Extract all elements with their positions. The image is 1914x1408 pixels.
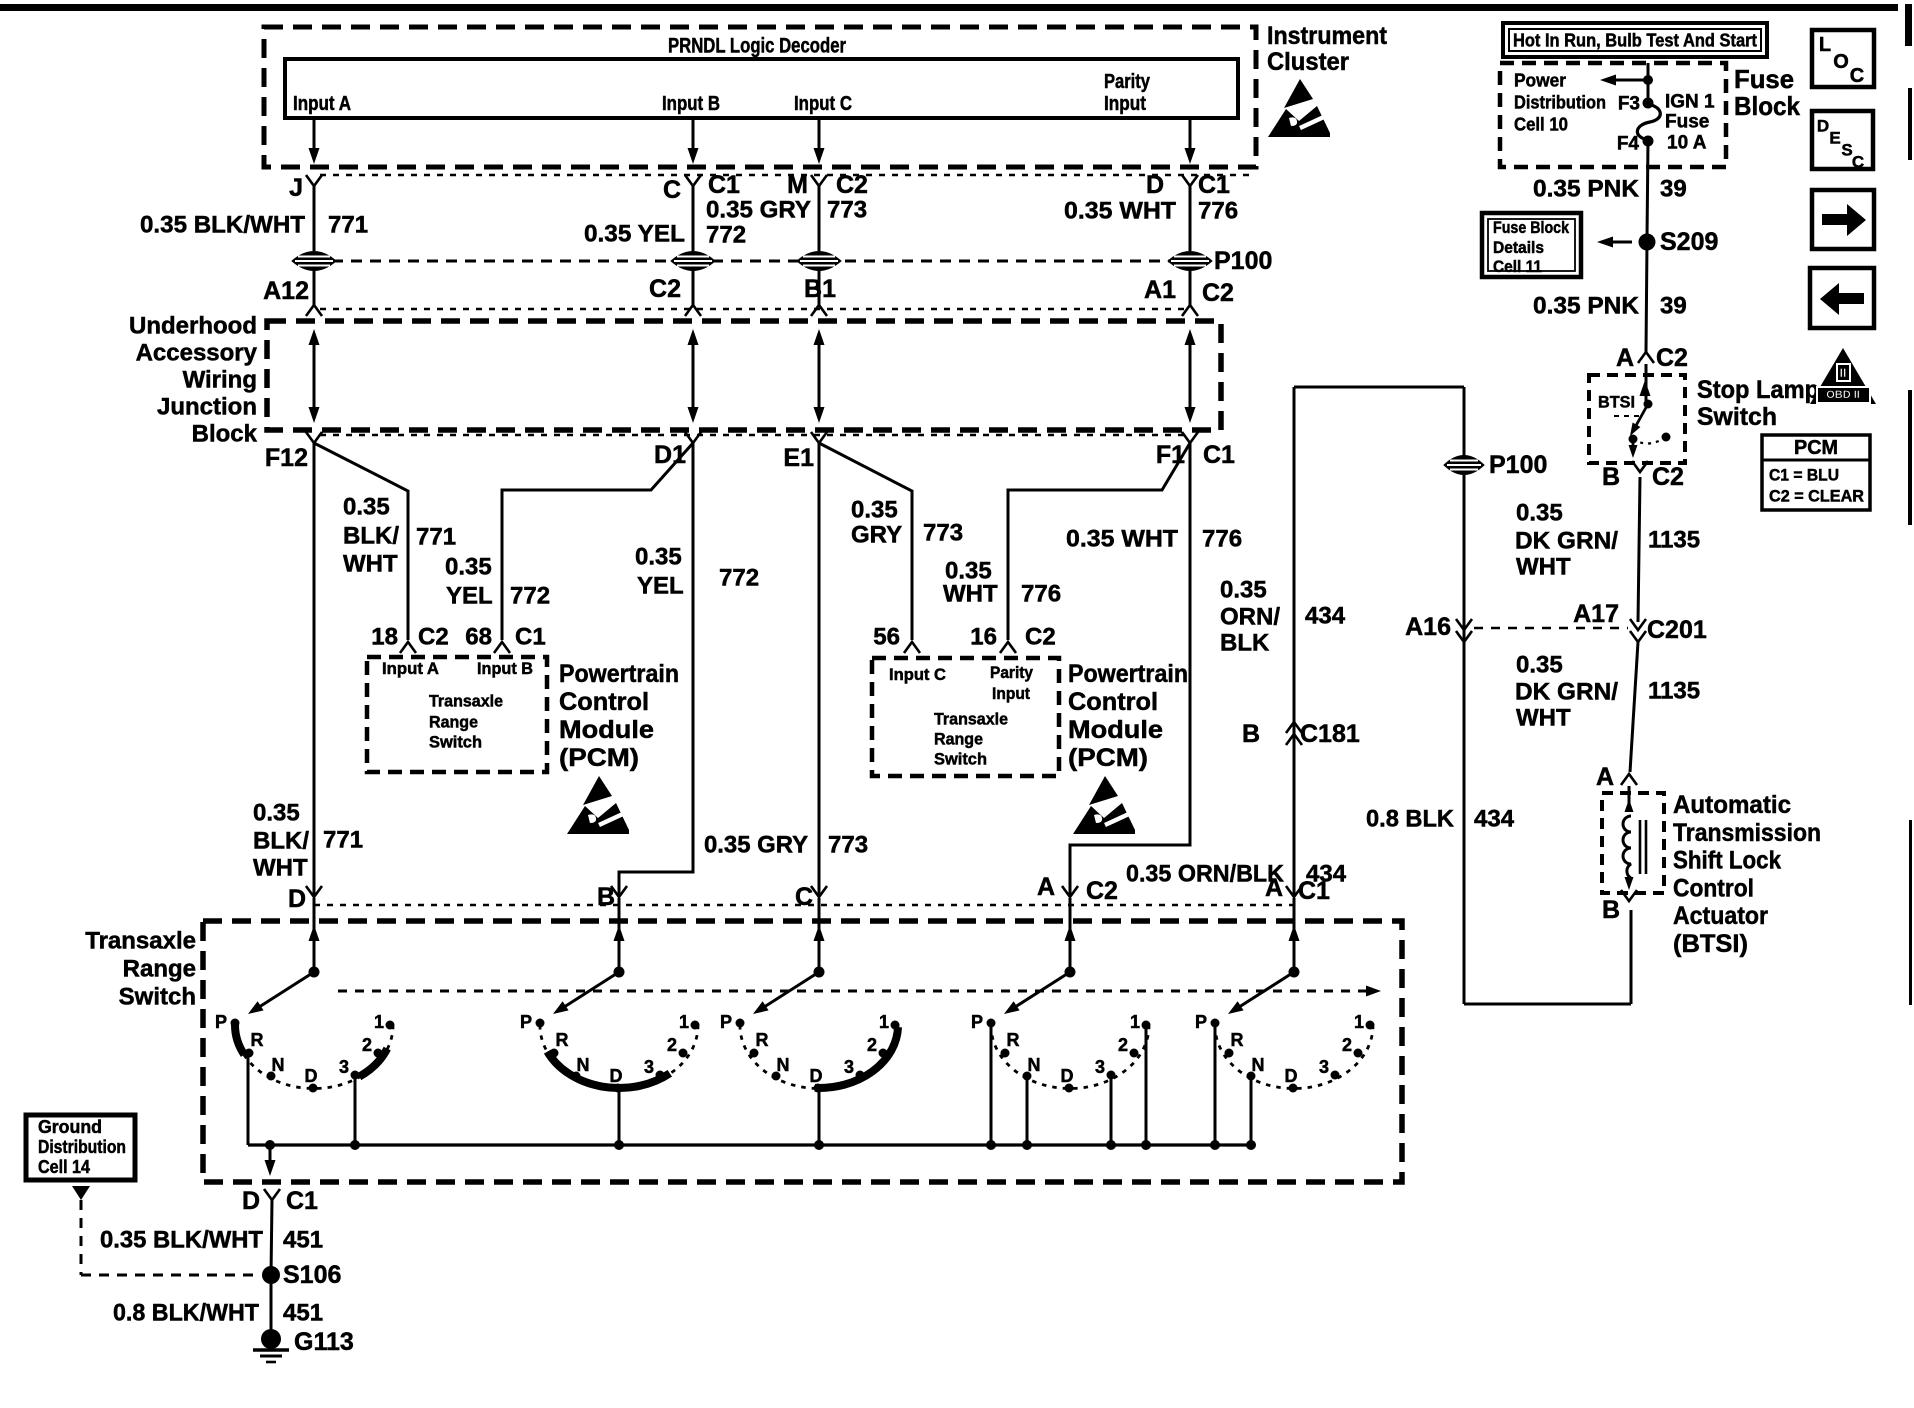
svg-text:Cluster: Cluster: [1267, 48, 1349, 76]
svg-text:Details: Details: [1493, 239, 1544, 257]
Stop Lamp Switch dashed box: [1589, 375, 1685, 463]
dashed link to S106: [80, 1200, 83, 1275]
connector fork C: [685, 175, 701, 186]
svg-text:F12: F12: [265, 444, 308, 472]
ground exit wire: [269, 1145, 272, 1168]
svg-text:0.35: 0.35: [1220, 577, 1267, 604]
svg-text:Transaxle: Transaxle: [934, 710, 1008, 729]
svg-text:A: A: [1616, 344, 1634, 372]
svg-text:0.35 GRY: 0.35 GRY: [706, 197, 811, 224]
wire Input Parity to connector: [1189, 118, 1192, 160]
Automatic Transmission Shift Lock Control Actuator dashed box: [1602, 793, 1664, 893]
svg-text:772: 772: [706, 222, 746, 249]
svg-text:Control: Control: [1068, 688, 1158, 716]
wire into stop lamp switch: [1645, 364, 1648, 402]
instrument cluster dashed box: [264, 27, 1256, 167]
svg-text:18: 18: [371, 624, 398, 651]
wire 434 top jog: [1294, 386, 1464, 389]
svg-text:E: E: [1829, 129, 1840, 148]
svg-text:Wiring: Wiring: [183, 367, 257, 394]
svg-text:Parity: Parity: [990, 664, 1034, 682]
svg-text:0.35 YEL: 0.35 YEL: [584, 221, 685, 248]
ground G113: [261, 1329, 281, 1349]
svg-text:P100: P100: [1214, 247, 1272, 275]
entry fork: [1062, 886, 1078, 897]
svg-text:Parity: Parity: [1104, 71, 1151, 93]
pin 18 C2: [400, 642, 416, 653]
fuse F3/F4 IGN 1 10A: [1643, 98, 1654, 109]
entry fork: [1286, 886, 1302, 897]
svg-text:D: D: [610, 1066, 623, 1086]
svg-text:C2: C2: [649, 275, 681, 303]
LOC icon box: [1812, 30, 1874, 87]
svg-text:A: A: [1037, 873, 1055, 901]
svg-text:F1: F1: [1156, 441, 1185, 469]
svg-text:Control: Control: [559, 688, 649, 716]
wire 0.8 BLK 434 to BTSI B: [1630, 910, 1633, 1004]
wire branch F12 to PCM pin 18: [314, 443, 408, 640]
junction block pass-through wire: [818, 337, 821, 415]
svg-text:F4: F4: [1617, 134, 1640, 155]
wire to junction block: [692, 271, 695, 305]
svg-text:0.35 GRY: 0.35 GRY: [704, 832, 808, 859]
svg-text:D: D: [242, 1187, 260, 1215]
DESC icon box: [1812, 111, 1873, 169]
svg-text:WHT: WHT: [343, 551, 398, 578]
svg-text:773: 773: [828, 832, 868, 859]
svg-text:A17: A17: [1573, 600, 1619, 628]
svg-text:Cell 14: Cell 14: [38, 1157, 90, 1177]
svg-text:R: R: [1231, 1030, 1244, 1050]
svg-text:C2: C2: [1086, 877, 1118, 905]
svg-text:D: D: [288, 885, 306, 913]
svg-text:S106: S106: [283, 1261, 341, 1289]
connector fork below junction block: [306, 432, 322, 443]
ground bus wire inside range switch: [248, 1143, 1251, 1146]
next page arrow icon: [1812, 190, 1874, 249]
svg-text:P100: P100: [1489, 451, 1547, 479]
svg-text:ORN/: ORN/: [1220, 604, 1280, 631]
splice S106: [262, 1266, 280, 1284]
svg-text:N: N: [777, 1055, 790, 1075]
svg-text:Range: Range: [429, 713, 478, 732]
svg-text:O: O: [1833, 51, 1849, 73]
svg-text:Input A: Input A: [293, 93, 351, 115]
svg-text:C2: C2: [836, 171, 868, 199]
arrow to fuse block details: [1601, 241, 1632, 244]
svg-text:E1: E1: [783, 444, 814, 472]
svg-text:Range: Range: [123, 956, 196, 983]
svg-text:0.35 WHT: 0.35 WHT: [1066, 526, 1178, 553]
grommet P100 pass-through: [671, 252, 715, 271]
svg-text:1: 1: [879, 1012, 889, 1032]
range switch wafer 2 input B: [520, 898, 700, 1093]
svg-text:0.35: 0.35: [1516, 500, 1563, 527]
svg-text:Powertrain: Powertrain: [1068, 660, 1188, 688]
node line C1/C2 connector row: [320, 174, 1256, 176]
svg-text:YEL: YEL: [637, 573, 684, 600]
svg-text:Power: Power: [1514, 70, 1566, 91]
svg-text:1: 1: [374, 1012, 384, 1032]
svg-text:771: 771: [323, 827, 363, 854]
svg-text:DK GRN/: DK GRN/: [1515, 528, 1618, 555]
svg-text:N: N: [1028, 1055, 1041, 1075]
svg-text:P: P: [971, 1012, 983, 1032]
svg-text:P: P: [720, 1012, 732, 1032]
wire 0.35 ORN/BLK 434: [1293, 387, 1296, 897]
svg-text:2: 2: [1342, 1035, 1352, 1055]
svg-text:0.35: 0.35: [1516, 652, 1563, 679]
grommet P100 pass-through: [1168, 252, 1212, 271]
svg-text:YEL: YEL: [446, 583, 493, 610]
svg-text:D: D: [1061, 1066, 1074, 1086]
svg-text:C: C: [1852, 153, 1864, 172]
svg-text:0.35 WHT: 0.35 WHT: [1064, 198, 1176, 225]
svg-text:BLK/: BLK/: [253, 828, 309, 855]
wire Input C to connector: [818, 118, 821, 160]
splice S209: [1639, 234, 1656, 251]
wire 0.8 BLK 434 bottom jog: [1464, 1003, 1631, 1006]
Fuse Block dashed box: [1500, 63, 1726, 167]
svg-text:C: C: [1850, 65, 1864, 87]
connector B C2 stop lamp: [1632, 461, 1648, 472]
svg-text:776: 776: [1202, 526, 1242, 553]
svg-text:Fuse: Fuse: [1734, 64, 1794, 94]
svg-text:2: 2: [1118, 1035, 1128, 1055]
svg-text:0.35: 0.35: [445, 554, 492, 581]
svg-text:N: N: [1252, 1055, 1265, 1075]
svg-text:N: N: [272, 1055, 285, 1075]
svg-text:1135: 1135: [1648, 678, 1700, 705]
svg-text:Ground: Ground: [38, 1117, 102, 1137]
svg-text:C1: C1: [1203, 441, 1235, 469]
svg-text:Automatic: Automatic: [1673, 791, 1791, 819]
svg-text:Hot In Run, Bulb Test And Star: Hot In Run, Bulb Test And Start: [1513, 30, 1757, 51]
connector C201 A16 A17: [1456, 619, 1472, 630]
pin 56: [904, 642, 920, 653]
svg-text:Cell 10: Cell 10: [1514, 114, 1568, 135]
svg-text:Switch: Switch: [934, 750, 987, 769]
wire 0.35 BLK/WHT 451: [271, 1200, 272, 1275]
svg-text:0.35: 0.35: [635, 544, 682, 571]
svg-text:Input C: Input C: [889, 666, 946, 684]
svg-text:D: D: [810, 1066, 823, 1086]
connector A C2 stop lamp: [1638, 352, 1654, 363]
range switch contact drop wires and bus: [247, 1053, 250, 1145]
connector D C1 ground exit: [264, 1189, 280, 1200]
svg-text:Input B: Input B: [477, 660, 533, 678]
svg-text:0.35: 0.35: [343, 494, 390, 521]
svg-text:F3: F3: [1618, 94, 1640, 115]
PCM connector legend box: [1762, 435, 1870, 510]
svg-text:Fuse Block: Fuse Block: [1493, 219, 1570, 237]
wafer 3 thick contact D-1: [815, 1027, 898, 1088]
svg-text:Actuator: Actuator: [1673, 902, 1768, 930]
svg-text:Distribution: Distribution: [1514, 92, 1606, 113]
range switch wafer 4 input A: [971, 898, 1151, 1093]
wire 0.35 DK GRN/WHT 1135 lower: [1630, 642, 1638, 772]
Underhood Accessory Wiring Junction Block dashed box: [267, 321, 1221, 430]
svg-text:451: 451: [283, 1227, 323, 1254]
svg-text:L: L: [1819, 34, 1831, 56]
svg-text:BLK/: BLK/: [343, 523, 399, 550]
svg-text:1: 1: [1354, 1012, 1364, 1032]
ESD symbol PCM right: [1073, 776, 1135, 834]
ground distribution pointer: [72, 1186, 90, 1200]
wire to junction block: [818, 271, 821, 305]
svg-text:Input: Input: [1104, 93, 1146, 115]
svg-text:R: R: [1007, 1030, 1020, 1050]
connector fork below junction block: [685, 432, 701, 443]
svg-text:IGN 1: IGN 1: [1665, 92, 1715, 113]
svg-text:N: N: [577, 1055, 590, 1075]
svg-text:R: R: [556, 1030, 569, 1050]
svg-text:C1 = BLU: C1 = BLU: [1769, 466, 1839, 485]
node line below P100 row: [320, 308, 1190, 310]
Transaxle Range Switch box (PCM inputs A/B) U2: [367, 657, 547, 772]
svg-text:P: P: [1195, 1012, 1207, 1032]
svg-text:C2: C2: [1656, 344, 1688, 372]
svg-text:39: 39: [1660, 176, 1687, 203]
Ground Distribution Cell 14 box: [26, 1115, 135, 1180]
wire 0.35 BLK/WHT 771 (F12 to D): [313, 443, 316, 897]
svg-text:(PCM): (PCM): [559, 744, 639, 772]
svg-text:R: R: [251, 1030, 264, 1050]
svg-text:C: C: [663, 176, 681, 204]
svg-text:Block: Block: [192, 421, 258, 448]
svg-text:1: 1: [1130, 1012, 1140, 1032]
connector fork D: [1182, 175, 1198, 186]
svg-text:A16: A16: [1405, 613, 1451, 641]
svg-text:Distribution: Distribution: [38, 1137, 126, 1157]
wafer 1 thick contact 3-2: [359, 1049, 387, 1077]
svg-text:Underhood: Underhood: [129, 313, 257, 340]
stop lamp switch S1 contacts: [1640, 380, 1651, 396]
range switch wafer 3 input C: [720, 898, 900, 1093]
wire branch D1 to PCM pin 68 (0.35 YEL 772): [502, 443, 693, 640]
connector fork below junction block: [811, 432, 827, 443]
svg-text:B: B: [1242, 720, 1260, 748]
svg-text:D: D: [1146, 171, 1164, 199]
svg-text:C1: C1: [515, 624, 546, 651]
svg-text:C2: C2: [1025, 624, 1056, 651]
svg-text:2: 2: [867, 1035, 877, 1055]
junction block pass-through wire: [692, 337, 695, 415]
wiper common dashed line: [338, 990, 1370, 993]
svg-text:451: 451: [283, 1300, 323, 1327]
svg-text:C1: C1: [708, 171, 740, 199]
svg-text:771: 771: [328, 212, 368, 239]
svg-text:C1: C1: [1198, 171, 1230, 199]
svg-text:Fuse: Fuse: [1665, 112, 1709, 133]
wire Input A to connector: [313, 118, 316, 160]
svg-text:BTSI: BTSI: [1598, 393, 1635, 412]
svg-text:773: 773: [923, 520, 963, 547]
svg-text:D: D: [1817, 117, 1829, 136]
svg-text:776: 776: [1021, 581, 1061, 608]
svg-text:(PCM): (PCM): [1068, 744, 1148, 772]
entry fork: [811, 886, 827, 897]
svg-text:2: 2: [667, 1035, 677, 1055]
svg-text:Range: Range: [934, 730, 983, 749]
connector B actuator: [1621, 890, 1637, 901]
svg-text:P: P: [215, 1012, 227, 1032]
svg-text:P: P: [520, 1012, 532, 1032]
pin 16 C2: [1000, 642, 1016, 653]
range switch wafer 5 input A: [1195, 898, 1375, 1093]
wire 0.35 DK GRN/WHT 1135 upper: [1638, 477, 1640, 622]
wire branch E1 to PCM pin 56: [819, 443, 912, 640]
svg-text:WHT: WHT: [1516, 705, 1571, 732]
svg-text:G113: G113: [294, 1328, 354, 1356]
svg-text:Transmission: Transmission: [1673, 819, 1821, 847]
svg-text:3: 3: [1095, 1057, 1105, 1077]
svg-text:772: 772: [510, 583, 550, 610]
svg-text:GRY: GRY: [851, 522, 902, 549]
svg-text:B: B: [1602, 463, 1620, 491]
svg-text:C1: C1: [286, 1187, 318, 1215]
Transaxle Range Switch dashed box S2: [203, 921, 1402, 1182]
svg-text:3: 3: [339, 1057, 349, 1077]
svg-text:0.8 BLK: 0.8 BLK: [1366, 806, 1455, 833]
svg-text:0.35 BLK/WHT: 0.35 BLK/WHT: [100, 1227, 263, 1254]
ESD symbol instrument cluster: [1268, 79, 1330, 137]
svg-text:3: 3: [844, 1057, 854, 1077]
svg-text:D: D: [1285, 1066, 1298, 1086]
svg-text:0.35 BLK/WHT: 0.35 BLK/WHT: [140, 212, 305, 239]
grommet P100 right: [1444, 456, 1484, 475]
pin 68 C1: [494, 642, 510, 653]
connector fork M: [811, 175, 827, 186]
wire 0.8 BLK 434 vertical: [1463, 387, 1466, 1004]
svg-text:3: 3: [644, 1057, 654, 1077]
svg-text:B: B: [1602, 896, 1620, 924]
svg-text:56: 56: [873, 624, 900, 651]
wire to junction block: [313, 271, 316, 305]
svg-text:(BTSI): (BTSI): [1673, 930, 1748, 958]
svg-text:C1: C1: [1298, 877, 1330, 905]
svg-text:C181: C181: [1300, 720, 1360, 748]
svg-text:WHT: WHT: [1516, 554, 1571, 581]
svg-text:BLK: BLK: [1220, 630, 1270, 657]
svg-text:Input A: Input A: [382, 660, 439, 678]
entry fork: [611, 886, 627, 897]
svg-text:0.35: 0.35: [851, 497, 898, 524]
svg-text:C2 = CLEAR: C2 = CLEAR: [1769, 487, 1864, 506]
svg-text:C201: C201: [1647, 616, 1707, 644]
wire from hot feed: [1647, 63, 1650, 99]
svg-text:D: D: [305, 1066, 318, 1086]
svg-text:PCM: PCM: [1794, 437, 1838, 459]
range switch wafer 1 input D: [215, 898, 395, 1093]
connector A actuator: [1621, 774, 1637, 785]
svg-text:PRNDL Logic Decoder: PRNDL Logic Decoder: [668, 35, 846, 58]
svg-text:2: 2: [362, 1035, 372, 1055]
node line above range switch: [314, 904, 1294, 906]
svg-text:Powertrain: Powertrain: [559, 660, 679, 688]
svg-text:C2: C2: [1652, 463, 1684, 491]
svg-text:0.35 PNK: 0.35 PNK: [1533, 176, 1640, 203]
entry fork: [306, 886, 322, 897]
connector fork below junction block: [1182, 432, 1198, 443]
svg-text:Block: Block: [1734, 91, 1800, 121]
svg-text:0.35 ORN/BLK: 0.35 ORN/BLK: [1126, 861, 1285, 888]
svg-text:Input: Input: [992, 685, 1030, 703]
svg-text:Input B: Input B: [662, 93, 720, 115]
svg-text:Control: Control: [1673, 874, 1754, 902]
wafer 2 thick contact R-3: [547, 1052, 669, 1088]
svg-text:WHT: WHT: [253, 855, 308, 882]
ESD symbol PCM left: [567, 776, 629, 834]
svg-text:Accessory: Accessory: [136, 340, 258, 367]
connector B C181: [1286, 722, 1302, 733]
wire branch F1 to PCM pin 16 (0.35 WHT 776): [1008, 443, 1190, 640]
wire 0.35 WHT 776 (F1 to A): [1070, 443, 1190, 897]
svg-text:S209: S209: [1660, 228, 1718, 256]
svg-text:DK GRN/: DK GRN/: [1515, 679, 1618, 706]
Hot In Run Bulb Test And Start box: [1503, 23, 1767, 57]
previous page arrow icon: [1810, 268, 1874, 328]
svg-text:A: A: [1596, 763, 1614, 791]
svg-text:R: R: [756, 1030, 769, 1050]
svg-text:Switch: Switch: [1697, 403, 1777, 431]
svg-text:3: 3: [1319, 1057, 1329, 1077]
wire Input B to connector: [692, 118, 695, 160]
svg-text:WHT: WHT: [943, 581, 998, 608]
wire 0.8 BLK/WHT 451: [270, 1275, 273, 1333]
svg-text:OBD II: OBD II: [1826, 389, 1860, 401]
connector fork J: [306, 175, 322, 186]
wire 0.35 PNK 39 upper: [1647, 141, 1648, 238]
svg-text:771: 771: [416, 524, 456, 551]
wire 0.35 PNK 39 lower: [1646, 242, 1647, 352]
svg-text:Instrument: Instrument: [1267, 22, 1388, 50]
grommet P100 pass-through: [292, 252, 336, 271]
svg-text:Switch: Switch: [429, 733, 482, 752]
svg-text:Transaxle: Transaxle: [429, 692, 503, 711]
svg-text:Junction: Junction: [157, 394, 257, 421]
svg-text:0.8 BLK/WHT: 0.8 BLK/WHT: [113, 1300, 259, 1327]
svg-text:C2: C2: [418, 624, 449, 651]
wire to junction block: [1189, 271, 1192, 305]
svg-text:776: 776: [1198, 198, 1238, 225]
svg-text:16: 16: [970, 624, 997, 651]
svg-text:772: 772: [719, 565, 759, 592]
svg-text:A12: A12: [263, 277, 309, 305]
svg-text:0.35 PNK: 0.35 PNK: [1533, 293, 1640, 320]
grommet P100 pass-through: [797, 252, 841, 271]
OBD II symbol: [1810, 348, 1876, 404]
svg-text:434: 434: [1305, 603, 1346, 630]
Transaxle Range Switch box (PCM inputs C/parity) U3: [872, 658, 1059, 776]
page top border: [0, 4, 1898, 11]
svg-text:II: II: [1840, 366, 1847, 380]
svg-text:434: 434: [1474, 806, 1515, 833]
Fuse Block Details Cell 11 box: [1482, 213, 1581, 277]
svg-text:M: M: [787, 171, 808, 199]
svg-text:39: 39: [1660, 293, 1687, 320]
page right border fragment: [1905, 4, 1912, 46]
svg-text:0.35: 0.35: [253, 800, 300, 827]
BTSI actuator solenoid coil L1: [1628, 786, 1631, 812]
wafer 1 thick contact P-R: [235, 1025, 244, 1055]
svg-text:Transaxle: Transaxle: [85, 928, 196, 955]
grommet P100 dashed line: [313, 260, 1189, 263]
svg-text:10 A: 10 A: [1667, 133, 1707, 154]
svg-text:68: 68: [465, 624, 492, 651]
svg-text:Stop Lamp: Stop Lamp: [1697, 376, 1819, 404]
svg-text:Shift Lock: Shift Lock: [1673, 847, 1781, 875]
